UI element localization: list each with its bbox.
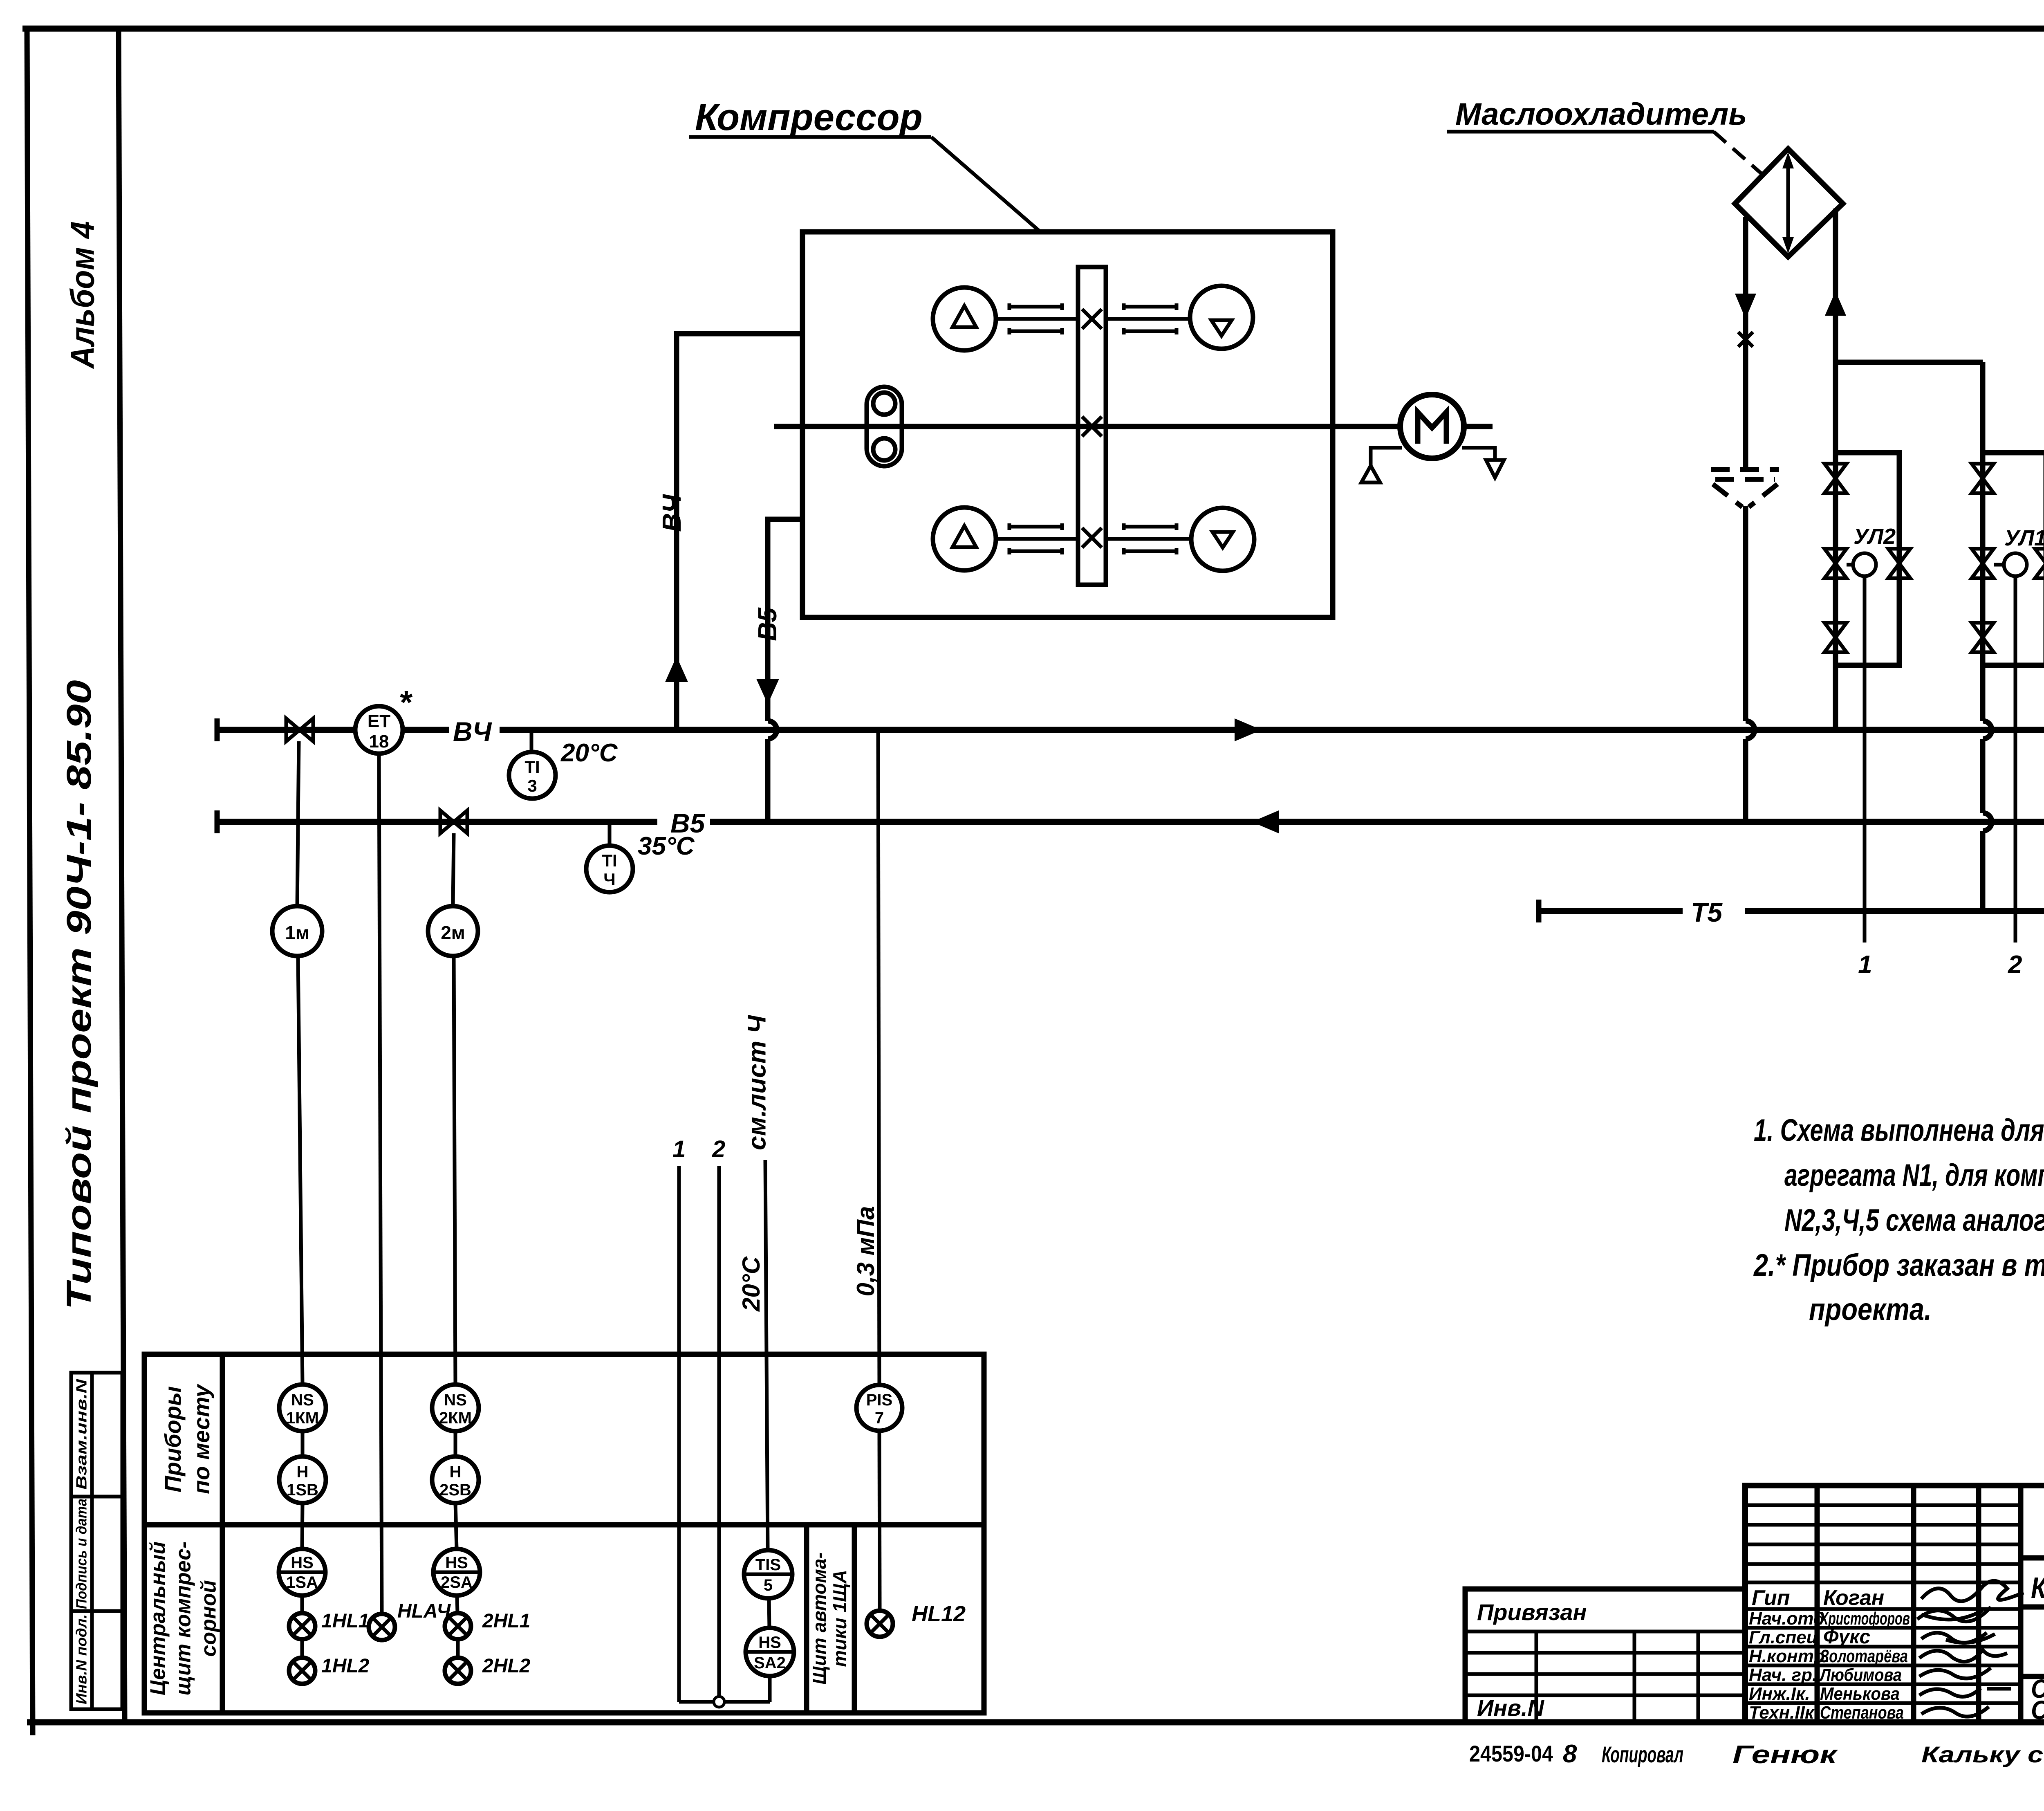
compressor label underline [689,135,931,139]
motor shaft right stub [1464,424,1493,429]
svg-text:НS: НS [445,1554,468,1572]
svg-text:SА2: SА2 [754,1654,786,1672]
svg-text:Нач.отд: Нач.отд [1749,1609,1824,1629]
pipeline B5 left tick [215,810,220,833]
svg-text:18: 18 [369,732,389,752]
svg-text:Инв.N: Инв.N [1477,1695,1544,1721]
svg-text:Инв.N подл.: Инв.N подл. [73,1614,90,1704]
table row divider [144,1522,984,1528]
instrument PIS/7 [856,1385,902,1431]
arrow down on B5 return [756,679,779,704]
УЛ2 bypass loop [1836,453,1899,665]
valve on УЛ2 pipe bottom [1824,623,1847,652]
svg-text:1КМ: 1КМ [286,1409,319,1427]
stem to second row [302,1503,303,1549]
svg-text:Кальку сверил Менькова: Кальку сверил Менькова [1921,1741,2044,1767]
hop of B5 return over B4 [768,721,777,739]
motor M letter [1418,412,1446,444]
pipeline T5 left tick [1536,900,1542,922]
svg-text:20°С: 20°С [560,739,618,767]
svg-text:0,3 мПа: 0,3 мПа [852,1206,879,1297]
svg-text:HLАЧ: HLАЧ [397,1600,451,1622]
X mark upper [1082,309,1102,329]
svg-text:Компрессор: Компрессор [695,96,923,138]
arrow up on right oil pipe [1825,291,1846,316]
svg-text:по месту: по месту [188,1383,214,1494]
stem [457,1596,457,1613]
left thin rows [1745,1505,2021,1703]
svg-text:РIS: РIS [866,1391,892,1409]
panel 1ЩА column left line [804,1525,809,1713]
svg-text:Христофоров: Христофоров [1819,1609,1910,1629]
svg-text:Ч: Ч [603,870,616,889]
motor starter line 2M from B5 valve [453,833,454,906]
svg-text:20°С: 20°С [737,1256,765,1312]
sheet border top [22,26,2044,32]
oil cooler label underline [1447,130,1714,134]
svg-text:проекта.: проекта. [1809,1292,1932,1327]
instrument HS/2SA [433,1549,480,1596]
instrument TIS/5 [744,1550,792,1598]
funnel drain line [1743,506,1748,822]
valve on УЛ1 loop [2035,549,2044,578]
panel 1ЩА column right line [852,1525,857,1713]
signal line 2 [717,1166,721,1702]
svg-text:Степанова: Степанова [1820,1703,1904,1723]
svg-text:щит компрес-: щит компрес- [172,1542,195,1696]
svg-text:5: 5 [764,1576,773,1594]
Привязан box rows [1465,1631,1745,1722]
УЛ2 signal line to pos.1 [1863,576,1867,943]
svg-text:Гип: Гип [1752,1586,1790,1610]
svg-text:Типовой проект 90Ч-1- 85.90: Типовой проект 90Ч-1- 85.90 [60,680,98,1310]
hop of drain over B4 [1746,721,1755,739]
svg-text:1: 1 [1858,951,1872,979]
triangle down in upper-right circle [1211,320,1232,336]
valve on B5 [440,810,467,833]
svg-text:ВЧ: ВЧ [453,716,492,747]
signal line 1 [677,1166,681,1702]
valve on УЛ2 loop [1888,549,1910,578]
svg-text:Любимова: Любимова [1819,1665,1902,1685]
svg-text:УЛ1: УЛ1 [2004,526,2044,550]
crankshaft stadium coupling [867,387,902,466]
svg-text:*: * [399,684,413,720]
instrument table frame [144,1354,984,1713]
table label column divider [220,1354,225,1713]
flow transmitter ET18 circle [355,706,403,754]
arrow up on B4 riser [665,656,688,682]
УЛ1 connector [1994,563,2004,567]
oil pipe left (to funnel) [1743,217,1748,469]
instrument NS/2KM [432,1385,479,1431]
triangle down in lower-right circle [1213,532,1233,548]
svg-text:Т5: Т5 [1691,897,1723,927]
valve on УЛ1 pipe top [1972,464,1994,493]
hop of УЛ1 pipe over B4 [1983,721,1992,739]
signal line см.лист 4 [765,1160,768,1550]
svg-text:см.лист Ч: см.лист Ч [743,1015,771,1150]
svg-text:Инж.Iк.: Инж.Iк. [1749,1684,1810,1704]
УЛ1 main pipe [1980,362,1986,911]
lower shaft rod line left [996,537,1078,541]
svg-text:Н.контр.: Н.контр. [1749,1646,1830,1666]
hop of УЛ1 pipe over B5 [1983,813,1992,831]
line 2M to table [454,956,455,1385]
УЛ2 main pipe [1833,362,1838,730]
temperature gauge TI4 stem [608,822,612,846]
instrument 2M [428,906,478,956]
svg-text:УЛ2: УЛ2 [1853,524,1896,549]
svg-text:НS: НS [758,1634,781,1652]
pipeline B4 main run [500,727,2044,733]
motor starter line 1M from B4 valve [297,741,299,906]
УЛ2 connector [1847,563,1853,567]
lamp 2HL2 [445,1658,471,1684]
coupling brackets upper-right [1124,303,1177,334]
upper shaft rod line left [996,317,1078,321]
svg-text:Альбом 4: Альбом 4 [64,221,101,369]
svg-text:3: 3 [527,776,537,795]
УЛ1 bypass loop [1983,453,2044,665]
X mark lower [1082,528,1102,548]
svg-text:Н: Н [297,1463,309,1481]
sheet outer border left [27,27,33,1735]
lamp 2HL1 [445,1613,471,1639]
pipeline B5 left segment [217,819,657,825]
svg-text:2м: 2м [441,922,465,943]
instrument HS/SA2 [746,1628,794,1676]
svg-text:Копировал: Копировал [1602,1741,1683,1767]
svg-text:тики 1ЩА: тики 1ЩА [829,1570,850,1667]
svg-text:Центральный: Центральный [146,1542,170,1696]
compressor shaft line [774,424,1400,429]
line 1M to table [298,956,303,1385]
Привязан box [1465,1589,1745,1722]
title block main divider [2018,1486,2024,1722]
lamp HL12 [867,1611,893,1637]
pipeline B4 left segment [217,727,355,733]
title block vertical: narrow col [1976,1486,1981,1722]
instrument HS/1SA [279,1549,325,1596]
signature scribbles [1917,1581,2024,1717]
svg-text:2HL1: 2HL1 [482,1610,530,1632]
connector line of signals 1,2 [679,1700,770,1704]
svg-text:NS: NS [444,1391,467,1409]
title block vertical: sign col [1911,1486,1916,1722]
compressor cylinder circle lower-left [933,507,996,570]
stem [301,1431,305,1456]
instrument NS/1KM [279,1385,326,1431]
solenoid УЛ1 circle [2004,553,2027,576]
lamp HLA4 [369,1614,395,1640]
svg-text:Подпись и дата: Подпись и дата [73,1499,90,1609]
title block outer frame [1745,1486,2044,1722]
valve on УЛ1 pipe middle [1972,549,1994,578]
svg-text:ВЧ: ВЧ [657,494,686,532]
stem to second row [455,1503,457,1549]
right part row line under ТП [2021,1555,2044,1561]
arrow left on B5 [1252,810,1279,833]
svg-text:1м: 1м [285,922,309,943]
ET18 signal line down to lamp HLA4 [379,754,382,1614]
lamp 1HL2 [289,1658,315,1684]
stem [300,1596,304,1613]
stadium top hole [873,393,895,415]
temperature gauge TI3 [509,752,556,799]
oil header line to УЛ1 [1836,360,1983,365]
instrument 1M [272,906,322,956]
svg-text:2SВ: 2SВ [439,1481,471,1499]
stem PIS7 to HL12 [879,1431,880,1611]
compressor cylinder circle lower-right [1191,508,1254,571]
svg-text:ЕТ: ЕТ [368,711,390,731]
svg-text:агрегата N1, для компресс: агрегата N1, для компрессорных агрегатов [1784,1158,2044,1193]
coupling brackets lower-right [1124,523,1177,554]
svg-text:2HL2: 2HL2 [482,1655,531,1677]
svg-text:Схема автоматизации: Схема автоматизации [2031,1695,2044,1725]
svg-text:1. Схема выполнена для ко: 1. Схема выполнена для компрессорного [1754,1113,2044,1148]
svg-text:2SА: 2SА [441,1573,473,1591]
instrument H/2SB [432,1456,479,1503]
oil cooler diamond [1735,149,1843,257]
oil cooler leader (dashed) [1714,132,1764,176]
solenoid УЛ2 circle [1853,553,1876,576]
motor support left [1361,448,1402,482]
svg-text:Компрессорная станция 5КЦ: Компрессорная станция 5КЦ -160 АО [2031,1572,2044,1605]
svg-text:1: 1 [672,1136,686,1162]
УЛ1 signal line to pos.2 [2014,576,2017,943]
svg-text:Привязан: Привязан [1477,1599,1587,1625]
oil pipe right (riser) [1833,209,1838,362]
triangle up in lower-left circle [953,526,976,547]
arrow down on left oil pipe [1735,294,1756,319]
pipe B5 return drop [768,519,802,822]
svg-text:Генюк: Генюк [1732,1741,1838,1769]
arrow right on B4 [1235,718,1262,741]
pipe B4 feed riser [677,334,802,730]
svg-text:1SВ: 1SВ [287,1481,318,1499]
coupling brackets upper-left [1009,303,1062,334]
lower shaft rod line right [1106,537,1191,541]
svg-text:Гл.спец: Гл.спец [1749,1627,1818,1647]
svg-text:Фукс: Фукс [1823,1626,1870,1648]
valve on УЛ2 pipe middle [1824,549,1847,578]
coupling brackets lower-left [1009,523,1062,554]
valve on УЛ2 pipe top [1824,464,1847,493]
svg-text:2: 2 [2008,951,2022,979]
svg-text:N2,3,Ч,5 схема аналогич: N2,3,Ч,5 схема аналогична [1784,1203,2044,1238]
pipeline B4 segment to label [403,727,449,733]
upper shaft rod line right [1106,317,1190,321]
row line under stadia values [2021,1674,2044,1679]
valve on УЛ1 pipe bottom [1972,623,1994,652]
svg-text:8: 8 [1563,1740,1577,1768]
svg-text:NS: NS [291,1391,314,1409]
svg-text:ТIS: ТIS [755,1556,781,1574]
svg-text:2: 2 [712,1136,725,1162]
svg-text:1HL2: 1HL2 [321,1655,370,1677]
pipeline B5 main run [710,819,2044,825]
right part row line under station [2021,1605,2044,1610]
svg-text:HL12: HL12 [912,1602,966,1626]
svg-text:сорной: сорной [197,1580,221,1656]
title block vertical: names col [1815,1486,1820,1722]
svg-text:2КМ: 2КМ [439,1409,472,1427]
sheet border bottom [27,1719,2044,1726]
pipeline T5 left segment [1539,908,1683,914]
frame left vertical (margin column) [119,28,125,1722]
svg-text:ТI: ТI [602,851,617,870]
stem HS/SA2 down [768,1676,772,1702]
compressor crosshead bar [1078,267,1106,585]
svg-text:Щит автома-: Щит автома- [809,1552,830,1684]
valve on B4 [286,718,313,741]
svg-text:ТI: ТI [524,757,540,776]
compressor box [802,232,1333,617]
svg-text:1SА: 1SА [286,1573,318,1591]
stem TIS5 to HS/SA2 [769,1598,769,1628]
triangle up in upper-left circle [953,306,976,327]
svg-text:35°С: 35°С [638,832,695,860]
compressor leader line [931,137,1040,232]
lamp 1HL1 [289,1613,315,1639]
temperature gauge TI3 stem [530,730,533,752]
pipeline B4 left tick [215,718,220,741]
svg-text:Техн.IIк: Техн.IIк [1749,1703,1815,1723]
svg-text:7: 7 [875,1409,884,1427]
stem [454,1431,457,1456]
svg-text:Н: Н [450,1463,462,1481]
margin stamp strip [71,1373,122,1709]
stem [300,1639,304,1658]
stadium bottom hole [873,438,895,460]
svg-text:Приборы: Приборы [160,1386,186,1492]
svg-text:Маслоохладитель: Маслоохладитель [1455,97,1747,132]
junction circle at line 2 [714,1697,724,1707]
svg-text:Менькова: Менькова [1820,1684,1900,1704]
instrument H/1SB [279,1456,326,1503]
PIS7 impulse line from B4 [878,730,879,1385]
diamond internal double arrow [1786,162,1790,244]
X mark middle [1082,417,1102,436]
svg-text:Коган: Коган [1823,1586,1884,1610]
stem [456,1639,460,1658]
pipeline T5 main run [1745,908,2044,914]
compressor cylinder circle upper-left [933,287,996,350]
svg-text:Нач. гр.: Нач. гр. [1749,1665,1817,1685]
x mark on left oil pipe [1738,332,1753,347]
svg-text:Взам.инв.N: Взам.инв.N [73,1379,90,1490]
svg-text:2.* Прибор заказан в техно: 2.* Прибор заказан в технологической час… [1753,1248,2044,1283]
svg-text:В5: В5 [753,607,782,641]
temperature gauge TI4 [586,846,633,892]
svg-text:24559-04: 24559-04 [1469,1741,1553,1766]
svg-text:НS: НS [291,1554,314,1572]
svg-text:Золотарёва: Золотарёва [1820,1646,1908,1666]
motor support right [1462,448,1504,478]
funnel (dashed) [1711,469,1779,507]
motor U1 circle [1400,395,1464,458]
compressor cylinder circle upper-right [1190,286,1253,349]
svg-text:1HL1: 1HL1 [321,1610,369,1632]
